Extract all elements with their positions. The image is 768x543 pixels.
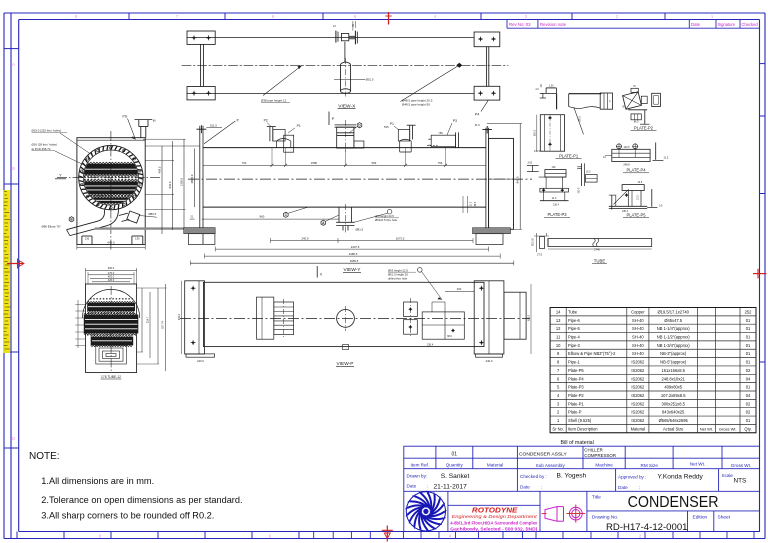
svg-text:300.5: 300.5: [580, 115, 582, 121]
small dims near right end: [462, 196, 464, 213]
bottom nozzle: [338, 207, 340, 222]
svg-text:14: 14: [556, 309, 561, 314]
VIEW-P right side plate: [504, 292, 526, 339]
svg-text:756: 756: [438, 131, 443, 135]
mount plate bottom-right: [474, 86, 500, 100]
red centering mark right: [753, 273, 767, 275]
svg-text:843.0: 843.0: [168, 181, 172, 188]
svg-text:38.0: 38.0: [447, 335, 452, 338]
svg-text:Drawn by:: Drawn by:: [407, 473, 428, 478]
svg-text:Net Wt.: Net Wt.: [690, 462, 705, 467]
rim radial hatching: [79, 146, 143, 210]
angle bracket detail: [540, 84, 542, 87]
svg-text:214.7: 214.7: [147, 316, 150, 323]
svg-text:409.5: 409.5: [158, 166, 162, 173]
leader drill note: [387, 209, 392, 214]
svg-text:01: 01: [746, 326, 751, 331]
svg-text:230.4: 230.4: [427, 344, 434, 347]
right-side dimension chain of end view: [161, 146, 163, 234]
svg-text:3.05: 3.05: [528, 163, 533, 165]
svg-text:Gross Wt.: Gross Wt.: [731, 463, 751, 468]
svg-text:Sub Assembly: Sub Assembly: [536, 463, 566, 468]
svg-text:Engineering & Design Departmen: Engineering & Design Department: [452, 514, 538, 520]
svg-text:240.5: 240.5: [302, 236, 309, 240]
svg-text:Qty.: Qty.: [744, 426, 751, 431]
VIEW-P small bottom square: [343, 345, 349, 350]
svg-text:drilled thro hole: drilled thro hole: [388, 276, 408, 280]
svg-text:TUBE: TUBE: [594, 258, 606, 263]
border zone ticks top: [128, 13, 130, 20]
svg-text:CHILLER: CHILLER: [584, 448, 603, 453]
detail nested rects: [96, 345, 127, 364]
svg-text:Drawing No.: Drawing No.: [592, 514, 618, 520]
svg-text:Pipe-3: Pipe-3: [568, 343, 581, 348]
VIEW-P right bracket part: [422, 312, 464, 339]
svg-text:NB-3"(approx): NB-3"(approx): [660, 351, 687, 356]
svg-text:SH-40: SH-40: [632, 318, 644, 323]
svg-text:Item Ref.: Item Ref.: [410, 462, 429, 467]
yellow highlighter strip left margin: [3, 190, 10, 353]
svg-text:176 TUBE-12: 176 TUBE-12: [101, 375, 121, 379]
svg-text:Ø565/546x2695: Ø565/546x2695: [659, 418, 689, 423]
svg-text:NOTE:: NOTE:: [29, 451, 60, 462]
svg-text:P1: P1: [390, 122, 394, 126]
svg-text:SH-40: SH-40: [632, 343, 644, 348]
Ø565 dim left: [194, 149, 196, 208]
border zone ticks right: [760, 63, 766, 65]
VIEW-P right dim line: [530, 284, 532, 354]
svg-text:21.5: 21.5: [638, 195, 640, 200]
border zone ticks left: [4, 48, 19, 50]
svg-text:Rev No: 03: Rev No: 03: [509, 22, 531, 27]
svg-text:843.0: 843.0: [178, 313, 181, 320]
svg-text:RD-H17-4-12-0001: RD-H17-4-12-0001: [606, 522, 688, 532]
svg-text:Ø19.5/17.1x2740: Ø19.5/17.1x2740: [657, 309, 689, 314]
svg-text:IS2062: IS2062: [631, 360, 645, 365]
svg-text:Plate-P: Plate-P: [568, 410, 582, 415]
svg-text:NB 1-1/2"(approx): NB 1-1/2"(approx): [657, 335, 690, 340]
svg-text:27.5: 27.5: [537, 253, 543, 257]
svg-text:Approved by :: Approved by :: [618, 475, 646, 480]
svg-text:252: 252: [745, 309, 753, 314]
white separations in bands: [82, 168, 140, 170]
svg-text:Ø565.0: Ø565.0: [190, 174, 194, 183]
svg-text:A: A: [12, 62, 15, 67]
svg-text:IS2062: IS2062: [631, 401, 645, 406]
svg-text:Copper: Copper: [631, 309, 645, 314]
svg-text:12: 12: [556, 326, 561, 331]
svg-text:IS2062: IS2062: [631, 376, 645, 381]
svg-text:476.0: 476.0: [108, 271, 115, 275]
svg-text:21-11-2017: 21-11-2017: [434, 483, 468, 490]
svg-text:Revision note: Revision note: [540, 22, 567, 27]
svg-text:2.Tolerance on open dimensions: 2.Tolerance on open dimensions as per st…: [41, 495, 242, 505]
svg-text:10: 10: [556, 343, 561, 348]
svg-text:300x251x8.5: 300x251x8.5: [661, 401, 685, 406]
center cylinder pipe: [340, 64, 342, 91]
svg-text:IS2062: IS2062: [631, 393, 645, 398]
svg-text:13: 13: [556, 318, 561, 323]
PG nozzle flange on top: [135, 119, 153, 121]
foundation blocks gray: [184, 228, 216, 234]
svg-text:Plate-P4: Plate-P4: [568, 376, 584, 381]
svg-text:21.5: 21.5: [471, 201, 473, 206]
svg-text:107.2x89x8.5: 107.2x89x8.5: [661, 393, 686, 398]
small angle detail: [527, 165, 539, 167]
svg-text:Ø19.0 (252 thro' holes): Ø19.0 (252 thro' holes): [32, 129, 62, 133]
svg-text:1350.5: 1350.5: [180, 177, 184, 186]
svg-text:211.5: 211.5: [534, 150, 540, 153]
svg-text:Checked: Checked: [742, 22, 759, 27]
svg-text:Machine: Machine: [595, 462, 613, 467]
svg-text:Sr No.: Sr No.: [552, 426, 564, 431]
svg-text:04: 04: [746, 376, 751, 381]
svg-text:Pipe-1: Pipe-1: [568, 360, 581, 365]
svg-text:01: 01: [746, 360, 751, 365]
VIEW-P left foot: [186, 354, 215, 357]
svg-text:SH-40: SH-40: [632, 326, 644, 331]
svg-text:Date: Date: [407, 483, 417, 488]
svg-text:01: 01: [746, 343, 751, 348]
leader left: pipe height note: [263, 65, 302, 95]
svg-text:11: 11: [556, 335, 561, 340]
svg-text:4-8b/1,3rd Floor,HIDA Sarround: 4-8b/1,3rd Floor,HIDA Sarrounded Complex: [450, 520, 537, 525]
svg-text:D: D: [12, 436, 15, 441]
red centering mark left: [7, 263, 24, 265]
svg-text:02: 02: [746, 368, 751, 373]
svg-text:Signature: Signature: [718, 22, 736, 27]
svg-text:B. Yogesh: B. Yogesh: [557, 473, 587, 480]
right legs: [486, 47, 488, 87]
svg-text:CONDENSER ASSLY: CONDENSER ASSLY: [519, 451, 567, 457]
svg-text:240.0: 240.0: [197, 359, 204, 363]
svg-text:IS2062: IS2062: [631, 418, 645, 423]
B marker: [69, 217, 74, 222]
svg-text:240.0: 240.0: [486, 359, 493, 363]
svg-text:Date: Date: [520, 485, 530, 490]
svg-text:511.5: 511.5: [210, 124, 217, 128]
leader right: pipe height note: [401, 65, 460, 101]
svg-text:01: 01: [746, 385, 751, 390]
foundation line (gray): [95, 227, 215, 229]
svg-text:Ø38 pipe height 12: Ø38 pipe height 12: [261, 99, 287, 103]
svg-text:Ø81.5: Ø81.5: [356, 228, 364, 232]
svg-text:756: 756: [438, 161, 443, 165]
center shaft fitting on rail: [335, 31, 337, 43]
svg-text:NB 1-1/4"(approx): NB 1-1/4"(approx): [657, 326, 690, 331]
svg-text:Plate-P2: Plate-P2: [568, 393, 584, 398]
border zone ticks bottom + center ruler: [16, 532, 18, 539]
svg-text:3.All sharp corners to be roun: 3.All sharp corners to be rounded off R0…: [41, 511, 214, 521]
svg-text:P3: P3: [453, 119, 457, 123]
red centering mark top: [388, 12, 390, 25]
svg-text:Pipe-4: Pipe-4: [568, 335, 581, 340]
svg-text:Ø19.05: Ø19.05: [533, 238, 535, 246]
svg-text:Material: Material: [631, 426, 646, 431]
detail hatch bands: [87, 303, 135, 312]
svg-text:PLATE-P4: PLATE-P4: [626, 168, 646, 173]
detail arc: [83, 289, 140, 318]
svg-text:Ø45x47.5: Ø45x47.5: [664, 318, 682, 323]
svg-text:1.00: 1.00: [549, 85, 554, 87]
svg-text:02: 02: [746, 401, 751, 406]
svg-text:640.0: 640.0: [108, 241, 115, 245]
svg-text:SH-40: SH-40: [632, 351, 644, 356]
end view: square tube sheet: [77, 138, 145, 245]
red centering mark bottom: [386, 526, 388, 542]
svg-text:2407.5: 2407.5: [351, 245, 360, 249]
svg-text:161x156x8.5: 161x156x8.5: [661, 368, 685, 373]
PLATE-P2 detail: [623, 92, 642, 109]
VIEW-Y shell outline: [203, 147, 486, 149]
X axis mark: [316, 266, 318, 278]
mount plate top-right: [474, 32, 500, 47]
svg-text:01: 01: [452, 452, 458, 458]
bottom dim 640: [77, 247, 145, 249]
svg-text:PLATE-P1: PLATE-P1: [559, 153, 579, 158]
rotodyne company text: [448, 504, 540, 506]
top center mark + 511.5 dim: [200, 125, 202, 133]
svg-text:IS2062: IS2062: [631, 385, 645, 390]
svg-text:130: 130: [135, 236, 140, 240]
svg-text:CONDENSER: CONDENSER: [628, 494, 719, 511]
svg-text:2740: 2740: [594, 248, 600, 252]
svg-text:515: 515: [384, 125, 389, 129]
svg-text:600.0: 600.0: [108, 266, 115, 270]
VIEW-Y centerline: [188, 178, 532, 180]
svg-text:Ø80 Elbow 75°: Ø80 Elbow 75°: [42, 224, 61, 228]
svg-text:Sheet: Sheet: [718, 514, 731, 520]
VIEW-P right bracket: [474, 281, 504, 354]
svg-text:843x640x25: 843x640x25: [662, 410, 685, 415]
svg-text:PLATE-P5: PLATE-P5: [626, 212, 646, 217]
P axis mark: [328, 112, 330, 126]
right end plate: [489, 138, 514, 229]
svg-text:300.5: 300.5: [579, 187, 581, 193]
revision table strip: [507, 27, 760, 29]
svg-text:Scale: Scale: [722, 473, 734, 478]
svg-text:409x80x5: 409x80x5: [664, 385, 682, 390]
svg-text:Elbow & Pipe NB3"(75°)-2: Elbow & Pipe NB3"(75°)-2: [568, 351, 616, 356]
svg-text:at PCD 495.74: at PCD 495.74: [32, 147, 51, 151]
svg-text:1673.5: 1673.5: [396, 236, 405, 240]
svg-text:Pipe-6: Pipe-6: [568, 318, 581, 323]
P leader top-left: [204, 121, 235, 144]
svg-text:Gachibowly, Selected - 500 032: Gachibowly, Selected - 500 032, (IND): [450, 526, 538, 531]
svg-text:248.8: 248.8: [623, 164, 630, 167]
dotted tube rows: [84, 176, 138, 178]
svg-text:Plate-P1: Plate-P1: [568, 401, 584, 406]
svg-text:P4: P4: [475, 113, 479, 117]
svg-text:SH-40: SH-40: [632, 335, 644, 340]
svg-text:Date: Date: [618, 485, 628, 490]
elbow flange piece: [127, 211, 140, 223]
400 dim: [445, 291, 474, 293]
right tube sheet: [485, 128, 487, 229]
projection symbol: [545, 507, 582, 522]
detail left dim ticks: [75, 303, 85, 305]
rotodyne logo: [406, 492, 445, 531]
VIEW-P right small flanges: [404, 302, 418, 317]
VIEW-P leader note: [418, 268, 423, 273]
nozzle P2/P1 left cluster: [269, 127, 271, 142]
svg-text:B: B: [12, 166, 15, 171]
svg-text:Item Description: Item Description: [568, 426, 598, 431]
svg-text:Checked by :: Checked by :: [520, 474, 547, 479]
white separations detail bands: [88, 306, 134, 308]
svg-text:IS2062: IS2062: [631, 410, 645, 415]
A marker: [321, 220, 326, 225]
svg-text:Actual Size: Actual Size: [663, 426, 684, 431]
nozzle P center: [337, 127, 354, 148]
svg-text:Ø80.5: Ø80.5: [149, 212, 157, 216]
svg-text:PG: PG: [123, 115, 128, 119]
end view: shell circle rim: [79, 145, 143, 209]
svg-text:Ø64x0.5 thro hole: Ø64x0.5 thro hole: [375, 218, 398, 222]
sheet border frame: [4, 12, 765, 14]
svg-text:Quantity: Quantity: [446, 462, 464, 467]
svg-text:Y.Konda Reddy: Y.Konda Reddy: [658, 474, 704, 481]
PLATE-P4 detail: [612, 149, 650, 161]
svg-text:04: 04: [746, 393, 751, 398]
svg-text:P2: P2: [264, 119, 268, 123]
VIEW-P right foot: [476, 354, 503, 357]
svg-text:527.74: 527.74: [162, 321, 165, 329]
center dash-dot line: [182, 64, 508, 66]
title block frame: [404, 446, 760, 531]
svg-text:Date: Date: [691, 22, 701, 27]
svg-text:01: 01: [746, 418, 751, 423]
mount plate top-left: [187, 31, 215, 44]
svg-text:NTS: NTS: [734, 477, 747, 484]
svg-text::: :: [541, 485, 542, 490]
svg-text:31.5: 31.5: [475, 123, 481, 127]
detail view body: [86, 284, 137, 373]
svg-text:1580: 1580: [311, 161, 318, 165]
svg-text:21.5: 21.5: [664, 157, 669, 160]
bent plate detail: [569, 93, 602, 95]
svg-text::: :: [639, 485, 640, 490]
svg-text:16.0: 16.0: [586, 172, 591, 174]
svg-text:44.5: 44.5: [638, 181, 643, 184]
svg-text:300.0: 300.0: [533, 129, 536, 136]
bottom elbow pipe: [67, 210, 105, 230]
svg-text:01: 01: [746, 335, 751, 340]
svg-text:01: 01: [746, 318, 751, 323]
dim chains below VIEW-Y: [271, 240, 474, 242]
nozzle P3: [431, 135, 455, 147]
svg-text:44.5: 44.5: [475, 201, 477, 206]
svg-text:582: 582: [372, 161, 377, 165]
left tube sheet: [199, 126, 201, 232]
PLATE-P5 detail: [622, 185, 644, 191]
svg-text:700: 700: [242, 161, 247, 165]
svg-text:130: 130: [552, 166, 557, 169]
detail stacked dims above: [86, 269, 137, 271]
feet notches: [81, 236, 83, 245]
svg-text:Net Wt.: Net Wt.: [700, 426, 713, 431]
svg-text:NB-5"(approx): NB-5"(approx): [660, 360, 687, 365]
svg-text:PLATE-P3: PLATE-P3: [547, 212, 567, 217]
svg-text:Title: Title: [592, 494, 601, 500]
PLATE-P3 detail: [545, 170, 566, 178]
VIEW-P body: [204, 282, 485, 346]
left legs: [200, 44, 202, 86]
svg-text:860: 860: [260, 215, 265, 219]
svg-text:Plate-P3: Plate-P3: [568, 385, 584, 390]
VIEW-X top assembly view: [182, 38, 508, 94]
svg-text:Material: Material: [487, 462, 503, 467]
right center mark: [486, 126, 488, 134]
dim line 700: [203, 164, 486, 166]
detail right dim lines: [141, 288, 143, 352]
TUBE detail: [548, 239, 652, 247]
channel detail: [581, 163, 583, 186]
end view centerlines: [110, 131, 112, 250]
svg-text:Bill of material: Bill of material: [561, 440, 594, 446]
VIEW-P left pipe assembly: [257, 297, 274, 339]
bill of material table: [550, 308, 756, 433]
860 dim: [202, 218, 339, 220]
D marker: [357, 123, 362, 128]
center stem: [344, 42, 346, 62]
svg-text:86.5: 86.5: [634, 122, 639, 124]
svg-text:01: 01: [746, 351, 751, 356]
svg-text:IS2062: IS2062: [631, 368, 645, 373]
svg-text:PLATE-P2: PLATE-P2: [634, 125, 654, 130]
svg-text:600.0: 600.0: [528, 314, 531, 321]
C marker: [284, 212, 289, 217]
svg-text:Edition: Edition: [693, 514, 708, 520]
svg-text:140.5: 140.5: [624, 146, 631, 149]
svg-text:Plate-P5: Plate-P5: [568, 368, 584, 373]
nozzle P1 right: [409, 125, 411, 139]
svg-text:130: 130: [85, 236, 90, 240]
svg-text:452.0: 452.0: [108, 274, 115, 278]
svg-text:COMPRESSOR: COMPRESSOR: [584, 453, 616, 458]
svg-text:2959.5: 2959.5: [350, 259, 359, 263]
svg-text:426.0: 426.0: [108, 278, 115, 282]
VIEW-P centerline: [180, 317, 530, 319]
PLATE-P1 detail: [540, 115, 564, 152]
svg-text:ROTODYNE: ROTODYNE: [472, 508, 518, 515]
svg-text:P1: P1: [297, 124, 301, 128]
svg-text:843.0: 843.0: [515, 176, 519, 183]
rim bolt holes: [139, 183, 141, 185]
svg-text::: :: [427, 483, 428, 488]
detail centerline: [110, 286, 112, 371]
svg-text:Gross Wt.: Gross Wt.: [719, 426, 737, 431]
svg-text:Tube: Tube: [568, 309, 578, 314]
svg-text:21.0: 21.0: [552, 198, 557, 200]
svg-text:Ø48.5 pipe height 50: Ø48.5 pipe height 50: [402, 103, 430, 107]
svg-text:RM Size: RM Size: [641, 463, 659, 468]
svg-text:NB 1-3/4"(approx): NB 1-3/4"(approx): [657, 343, 690, 348]
svg-text:400: 400: [457, 287, 462, 291]
843 dim right: [519, 124, 521, 230]
svg-text:Pipe-5: Pipe-5: [568, 326, 581, 331]
svg-text:Shell (9.525): Shell (9.525): [568, 418, 592, 423]
svg-text:Ø51.5: Ø51.5: [366, 78, 374, 82]
mount plate bottom-left: [187, 87, 215, 100]
svg-text:2480.5: 2480.5: [349, 252, 358, 256]
svg-text:1.All dimensions are in mm.: 1.All dimensions are in mm.: [41, 476, 154, 486]
svg-text:02: 02: [746, 410, 751, 415]
VIEW-P left bracket: [181, 281, 183, 354]
svg-text:130.4: 130.4: [553, 204, 560, 207]
svg-text:248.8x10x21: 248.8x10x21: [661, 376, 685, 381]
VIEW-P center hole: [337, 310, 355, 328]
